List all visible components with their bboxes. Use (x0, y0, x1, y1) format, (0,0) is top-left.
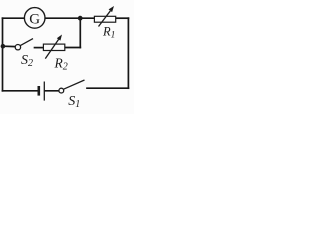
wire left junction to S2 pivot (3, 45, 16, 47)
wire battery to S1 (45, 90, 59, 92)
resistor R1 (rheostat) (94, 6, 115, 41)
node junction A (top) (78, 16, 83, 21)
wire top-left horizontal (3, 17, 25, 19)
node junction B (left) (1, 44, 6, 49)
resistor R2 (rheostat) (43, 35, 67, 73)
wire left vertical (2, 18, 4, 91)
wire R1 right to top-right corner (116, 17, 128, 19)
wire middle branch vertical (junction to R2 level) (79, 18, 81, 47)
switch S2 (15, 39, 33, 70)
svg-text:G: G (29, 11, 40, 27)
battery S (cell) (39, 82, 45, 101)
wire G to junction to R1 (45, 17, 94, 19)
wire S2 blade to R2 left lead (35, 47, 44, 49)
switch S1 (59, 80, 85, 110)
wire right vertical (127, 18, 129, 88)
wire bottom-right horizontal (87, 87, 128, 89)
wire bottom-left horizontal (3, 90, 39, 92)
galvanometer G (24, 8, 45, 29)
wire R2 right lead (65, 47, 80, 49)
